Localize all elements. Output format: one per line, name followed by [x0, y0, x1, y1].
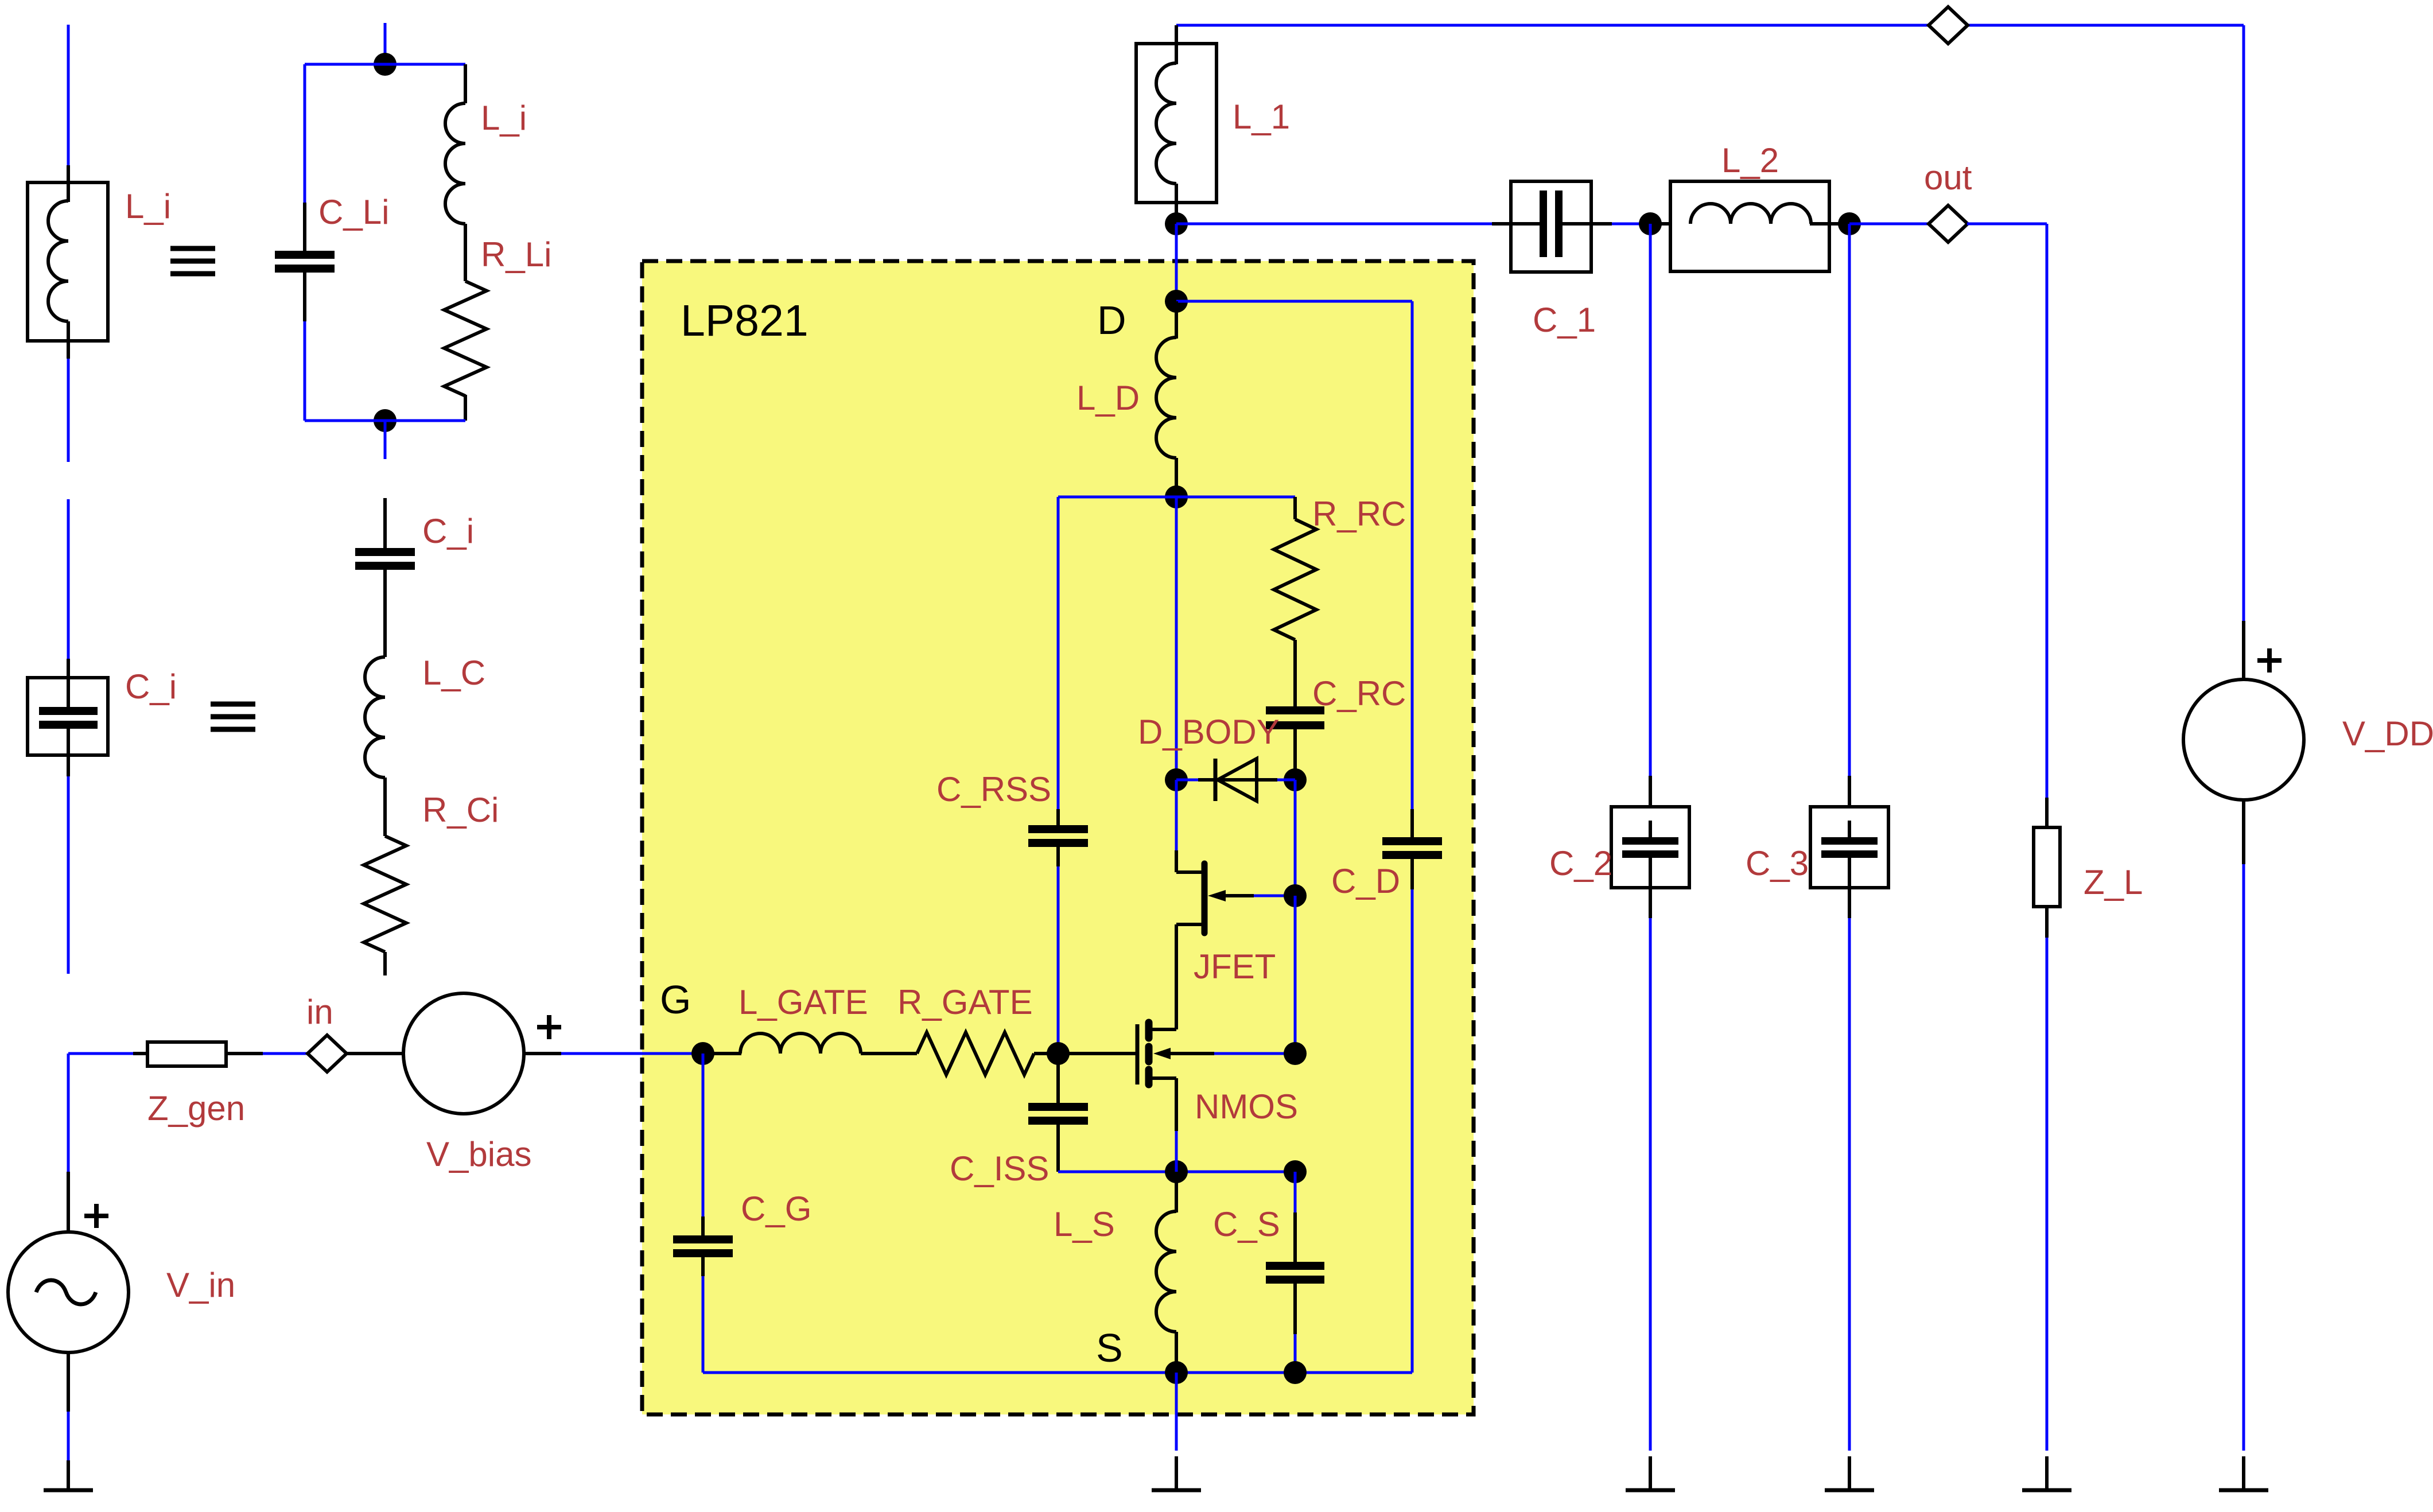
- capacitor C_i (boxed symbol): [28, 678, 108, 755]
- node (JFET gate): [1284, 884, 1307, 907]
- LP821 transistor model bounding box: [642, 261, 1474, 1414]
- svg-text:C_ISS: C_ISS: [950, 1149, 1049, 1188]
- node (C_1 / C_2 junction): [1639, 212, 1662, 235]
- wire: [1649, 224, 1652, 776]
- wire: [1214, 1052, 1295, 1055]
- inductor L_S: [1175, 1172, 1178, 1212]
- svg-text:C_i: C_i: [125, 667, 177, 706]
- node S: [1165, 1361, 1188, 1384]
- node (L_S top): [1165, 1160, 1188, 1183]
- wire: [1176, 223, 1492, 226]
- wire: [384, 23, 387, 64]
- svg-text:R_GATE: R_GATE: [897, 983, 1033, 1021]
- inductor L_1 (boxed): [1136, 44, 1216, 203]
- svg-text:C_RC: C_RC: [1312, 674, 1406, 713]
- svg-text:C_i: C_i: [422, 512, 474, 550]
- wire: [1967, 223, 2047, 226]
- svg-text:JFET: JFET: [1194, 947, 1276, 986]
- svg-text:L_2: L_2: [1721, 141, 1779, 180]
- wire: [1294, 896, 1297, 1054]
- svg-text:C_1: C_1: [1533, 301, 1596, 339]
- svg-text:V_in: V_in: [166, 1266, 235, 1304]
- transistor JFET: [1175, 850, 1178, 872]
- resistor R_RC: [1293, 497, 1297, 519]
- wire: [1057, 497, 1060, 809]
- wire: [1176, 24, 2244, 27]
- svg-text:R_RC: R_RC: [1312, 495, 1406, 533]
- wire: [1176, 300, 1412, 303]
- svg-text:C_Li: C_Li: [318, 193, 389, 231]
- capacitor C_1 (boxed, series): [1492, 222, 1544, 226]
- ground (below C_3): [1848, 1456, 1851, 1490]
- svg-text:D_BODY: D_BODY: [1138, 713, 1280, 751]
- wire: [702, 1276, 705, 1373]
- svg-text:out: out: [1924, 158, 1972, 197]
- capacitor C_RSS: [1056, 809, 1060, 827]
- plus sign of V_in: [84, 1214, 108, 1218]
- wire: [2046, 938, 2049, 1451]
- ground (below V_in): [67, 1460, 70, 1490]
- wire: [67, 1054, 70, 1172]
- svg-text:L_1: L_1: [1233, 98, 1290, 136]
- wire: [384, 421, 387, 459]
- ground (below V_DD): [2242, 1456, 2245, 1490]
- wire: [1649, 918, 1652, 1451]
- node (C_S top): [1284, 1160, 1307, 1183]
- node in (diamond): [308, 1035, 347, 1072]
- svg-text:LP821: LP821: [681, 296, 809, 345]
- inductor L_i (boxed symbol): [28, 182, 108, 341]
- svg-text:L_i: L_i: [481, 99, 527, 137]
- wire: [68, 1052, 133, 1055]
- diode D_BODY: [1176, 779, 1295, 782]
- wire: [1175, 497, 1178, 780]
- svg-text:Z_gen: Z_gen: [147, 1089, 245, 1128]
- node (C_S bottom): [1284, 1361, 1307, 1384]
- node (L_D bottom junction): [1165, 485, 1188, 508]
- node (L_1 bottom): [1165, 212, 1188, 235]
- svg-text:L_D: L_D: [1076, 379, 1140, 417]
- wire: [1057, 866, 1060, 1043]
- svg-text:L_i: L_i: [125, 187, 171, 226]
- wire: [263, 1052, 308, 1055]
- node (L_2 / C_3 junction): [1838, 212, 1861, 235]
- svg-text:NMOS: NMOS: [1195, 1087, 1298, 1126]
- wire: [305, 63, 465, 66]
- wire: [305, 419, 465, 422]
- wire: [1849, 223, 1929, 226]
- resistor R_Ci: [364, 836, 406, 952]
- svg-text:L_S: L_S: [1054, 1205, 1115, 1243]
- capacitor C_3 (boxed): [1848, 776, 1851, 809]
- impedance Z_L: [2045, 798, 2049, 829]
- wire: [304, 64, 306, 203]
- wire: [67, 25, 70, 165]
- svg-text:L_GATE: L_GATE: [739, 983, 868, 1021]
- node G: [691, 1042, 714, 1065]
- wire: [1294, 780, 1297, 896]
- capacitor C_G: [702, 1054, 705, 1216]
- node (NMOS bulk): [1284, 1042, 1307, 1065]
- svg-text:C_S: C_S: [1213, 1205, 1280, 1243]
- wire: [1175, 1131, 1178, 1172]
- capacitor C_S: [1293, 1212, 1297, 1264]
- wire: [1175, 780, 1178, 850]
- resistor R_Li: [444, 281, 487, 396]
- ac source V_in: [67, 1172, 70, 1232]
- inductor L_2 (boxed): [1650, 222, 1692, 226]
- wire: [1175, 224, 1178, 301]
- node (top of L_i equivalent): [374, 53, 397, 76]
- resistor R_GATE: [917, 1032, 1034, 1075]
- wire: [67, 776, 70, 974]
- wire: [561, 1052, 703, 1055]
- plus sign of V_DD: [2257, 658, 2282, 663]
- wire: [1848, 224, 1851, 776]
- capacitor C_Li: [303, 203, 306, 252]
- svg-text:V_DD: V_DD: [2342, 714, 2433, 753]
- svg-text:C_3: C_3: [1746, 844, 1809, 883]
- wire: [67, 1412, 70, 1460]
- equivalence sign: [170, 248, 215, 274]
- wire: [1411, 889, 1414, 1373]
- wire: [1254, 895, 1295, 897]
- svg-text:V_bias: V_bias: [426, 1135, 531, 1173]
- svg-text:R_Li: R_Li: [481, 235, 551, 274]
- impedance Z_gen: [133, 1052, 149, 1055]
- wire: [1176, 496, 1295, 499]
- wire: [1058, 1171, 1295, 1173]
- svg-text:S: S: [1096, 1326, 1123, 1370]
- ground (below S): [1175, 1456, 1178, 1490]
- node (bottom of L_i equivalent): [374, 409, 397, 432]
- wire: [67, 499, 70, 659]
- transistor NMOS: [1058, 1052, 1136, 1055]
- ground (below C_2): [1649, 1456, 1652, 1490]
- wire: [347, 1052, 403, 1055]
- wire: [2046, 224, 2049, 798]
- capacitor C_D: [1411, 301, 1414, 809]
- inductor L_C: [383, 617, 387, 657]
- svg-text:C_D: C_D: [1331, 862, 1400, 900]
- wire: [67, 359, 70, 462]
- ground (below Z_L): [2045, 1456, 2049, 1490]
- wire: [304, 321, 306, 421]
- wire: [1175, 1373, 1178, 1451]
- capacitor C_i (equivalent): [383, 498, 387, 550]
- node (diode anode): [1284, 768, 1307, 791]
- svg-text:C_G: C_G: [741, 1190, 811, 1228]
- capacitor C_RC: [1266, 706, 1324, 714]
- svg-text:G: G: [660, 977, 691, 1022]
- node (gate / C_ISS junction): [1047, 1042, 1070, 1065]
- svg-text:D: D: [1097, 298, 1126, 343]
- node D: [1165, 290, 1188, 313]
- capacitor C_2 (boxed): [1649, 776, 1652, 809]
- equivalence sign: [211, 704, 255, 729]
- inductor L_GATE: [714, 1052, 741, 1055]
- inductor L_i (equivalent): [464, 64, 467, 103]
- dc source V_DD: [2242, 621, 2245, 681]
- node (diode cathode): [1165, 768, 1188, 791]
- inductor L_D: [1175, 301, 1178, 339]
- svg-text:R_Ci: R_Ci: [422, 791, 499, 829]
- node out (diamond): [1929, 205, 1968, 242]
- svg-text:C_RSS: C_RSS: [936, 770, 1051, 809]
- wire: [1294, 1334, 1297, 1373]
- wire: [1058, 496, 1176, 499]
- wire: [1294, 1172, 1297, 1212]
- plus sign of V_bias: [537, 1025, 561, 1029]
- svg-text:in: in: [306, 993, 333, 1031]
- wire: [1612, 223, 1650, 226]
- capacitor C_ISS: [1056, 1054, 1060, 1105]
- svg-text:L_C: L_C: [422, 654, 485, 692]
- wire: [1848, 918, 1851, 1451]
- dc source V_bias: [403, 993, 524, 1114]
- svg-text:Z_L: Z_L: [2084, 863, 2143, 901]
- svg-text:C_2: C_2: [1549, 844, 1612, 883]
- wire: [2242, 25, 2245, 621]
- wire: [703, 1371, 1412, 1374]
- node (top rail diamond): [1929, 7, 1968, 44]
- wire: [2242, 864, 2245, 1451]
